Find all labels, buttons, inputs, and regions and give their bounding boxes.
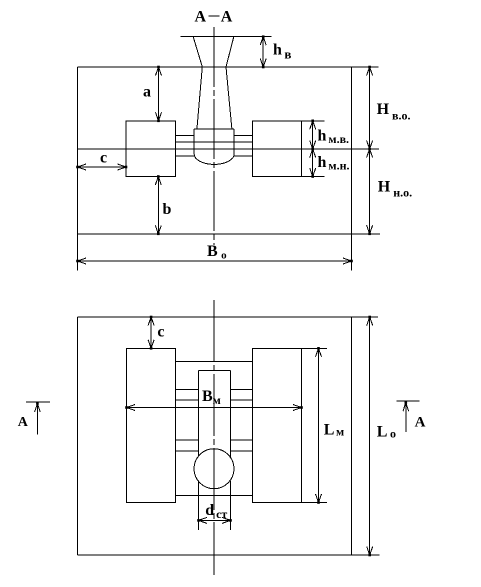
svg-text:c: c xyxy=(157,324,164,341)
runner strip top xyxy=(199,370,231,372)
plan runner line 1 xyxy=(176,361,253,363)
dim h_v xyxy=(262,37,264,67)
svg-text:b: b xyxy=(163,201,172,218)
plan box right border xyxy=(351,317,353,555)
parting line xyxy=(78,148,380,150)
left block xyxy=(126,121,176,177)
dim B_m xyxy=(127,407,302,409)
dim H_no xyxy=(369,149,371,234)
plan runner line 5 right xyxy=(231,450,253,452)
svg-text:dст: dст xyxy=(205,502,227,521)
plan runner line 2 left xyxy=(176,388,199,390)
plan runner line 3 left xyxy=(176,399,199,401)
dim L_o xyxy=(369,317,371,555)
extension plan block bottom xyxy=(302,502,327,504)
svg-text:A: A xyxy=(415,415,426,431)
extension plan block top xyxy=(302,347,327,349)
plan box top border xyxy=(78,316,378,318)
svg-text:Вм: Вм xyxy=(202,388,221,407)
mold box bottom border xyxy=(78,233,381,235)
svg-text:Hв.о.: Hв.о. xyxy=(377,101,411,123)
right block xyxy=(253,121,302,177)
runner strip left wall lower xyxy=(198,482,200,531)
dim h_mv xyxy=(312,121,314,149)
plan box bottom border xyxy=(78,554,380,556)
dim a xyxy=(158,67,160,121)
mold box top border xyxy=(78,66,379,68)
runner line 3 right xyxy=(234,155,253,157)
section mark A right bar xyxy=(397,400,420,402)
dim c plan xyxy=(150,317,152,348)
svg-text:Lо: Lо xyxy=(377,424,396,441)
svg-text:Hн.о.: Hн.о. xyxy=(378,178,412,199)
runner line 2 xyxy=(176,141,253,143)
dim H_vo xyxy=(369,67,371,149)
centerline top view xyxy=(213,27,215,245)
runner line 3 left xyxy=(176,155,195,157)
section mark A left arrow xyxy=(36,403,38,434)
runner line 1 right xyxy=(234,134,252,136)
svg-text:a: a xyxy=(143,83,151,100)
sprue bottom line xyxy=(194,128,234,130)
svg-text:hм.в.: hм.в. xyxy=(318,128,350,147)
sprue well xyxy=(194,129,234,164)
plan runner line 2 right xyxy=(231,388,253,390)
dim b xyxy=(157,177,159,234)
section mark A left bar xyxy=(26,401,50,403)
mold box left border xyxy=(77,67,79,271)
runner line 1 left xyxy=(176,134,195,136)
plan runner line 3 right xyxy=(231,399,253,401)
plan right block xyxy=(253,348,302,502)
pouring basin top line xyxy=(180,36,271,38)
svg-text:hв: hв xyxy=(273,42,291,62)
dim d_st xyxy=(199,519,231,521)
centerline bottom view xyxy=(213,300,215,575)
dim B_o xyxy=(78,260,352,262)
svg-text:AA: AA xyxy=(195,9,233,26)
dim c top view xyxy=(78,166,127,168)
plan left block xyxy=(127,348,176,502)
section mark A right arrow xyxy=(405,403,407,432)
runner strip right wall lower xyxy=(230,481,232,530)
plan runner line 6 xyxy=(176,495,253,497)
plan runner line 5 left xyxy=(176,450,199,452)
dim L_m xyxy=(318,348,320,502)
runner strip left wall upper xyxy=(198,371,200,457)
svg-text:A: A xyxy=(18,415,29,430)
plan runner line 4 right xyxy=(231,439,253,441)
svg-text:hм.н.: hм.н. xyxy=(318,154,350,173)
extension line block bottom right xyxy=(302,176,325,178)
sprue left wall xyxy=(193,37,202,130)
svg-text:Lм: Lм xyxy=(324,422,344,439)
plan runner line 4 left xyxy=(176,439,199,441)
svg-text:Во: Во xyxy=(207,243,227,262)
dim h_mn xyxy=(312,149,314,177)
sprue right wall xyxy=(226,37,234,130)
plan box left border xyxy=(77,317,79,555)
mold box right border xyxy=(351,67,353,271)
extension line block top right xyxy=(302,120,325,122)
sprue circle xyxy=(194,449,234,489)
svg-text:c: c xyxy=(100,150,107,167)
runner strip right wall upper xyxy=(230,371,232,458)
